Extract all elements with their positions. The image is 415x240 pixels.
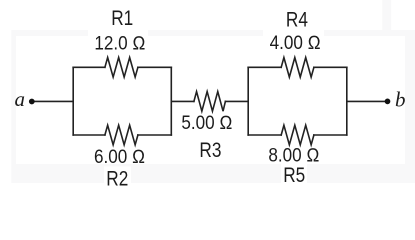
resistor R4 (4.00 ohm) zigzag xyxy=(281,58,314,78)
stray gray strip top-right xyxy=(382,0,391,30)
frame inner white area xyxy=(16,36,405,164)
figure frame (light gray) xyxy=(11,30,415,183)
node b terminal dot xyxy=(385,99,391,105)
svg-text:5.00 Ω: 5.00 Ω xyxy=(181,112,232,133)
svg-text:4.00 Ω: 4.00 Ω xyxy=(270,32,321,53)
wire: middle between blocks xyxy=(171,100,194,102)
wire: top branch leads block 1 xyxy=(73,66,105,68)
wire: left vertical of block 1 xyxy=(72,67,74,135)
wire: bottom branch leads block 2 xyxy=(248,134,281,136)
svg-text:R5: R5 xyxy=(283,165,305,188)
svg-text:R2: R2 xyxy=(106,168,128,191)
svg-text:6.00 Ω: 6.00 Ω xyxy=(94,146,145,167)
svg-text:R1: R1 xyxy=(111,7,133,30)
svg-text:R3: R3 xyxy=(199,140,221,163)
svg-text:a: a xyxy=(15,87,26,111)
wire: right vertical of block 1 xyxy=(170,67,172,135)
wire: top branch leads block 2 xyxy=(248,66,281,68)
white label box behind 4.00 ohm xyxy=(263,28,324,53)
resistor R3 (5.00 ohm) zigzag xyxy=(194,92,226,112)
wire: bottom branch leads block 1 xyxy=(73,134,105,136)
white label box behind R2 xyxy=(104,167,131,187)
svg-text:8.00 Ω: 8.00 Ω xyxy=(268,144,319,165)
resistor R1 (12.0 ohm) zigzag xyxy=(105,58,138,78)
wire: right vertical of block 2 xyxy=(346,67,348,135)
svg-text:12.0 Ω: 12.0 Ω xyxy=(94,33,145,54)
node a terminal dot xyxy=(29,99,35,105)
resistor R2 (6.00 ohm) zigzag xyxy=(105,125,138,145)
svg-text:R4: R4 xyxy=(286,9,308,32)
svg-text:b: b xyxy=(395,88,406,112)
white label box behind R5 xyxy=(281,164,307,186)
wire: node a to parallel block 1 xyxy=(32,100,73,102)
white label box behind 12.0 ohm xyxy=(88,28,148,53)
wire: left vertical of block 2 xyxy=(247,67,249,135)
wire: block 2 to node b xyxy=(347,100,388,102)
resistor R5 (8.00 ohm) zigzag xyxy=(281,125,314,145)
